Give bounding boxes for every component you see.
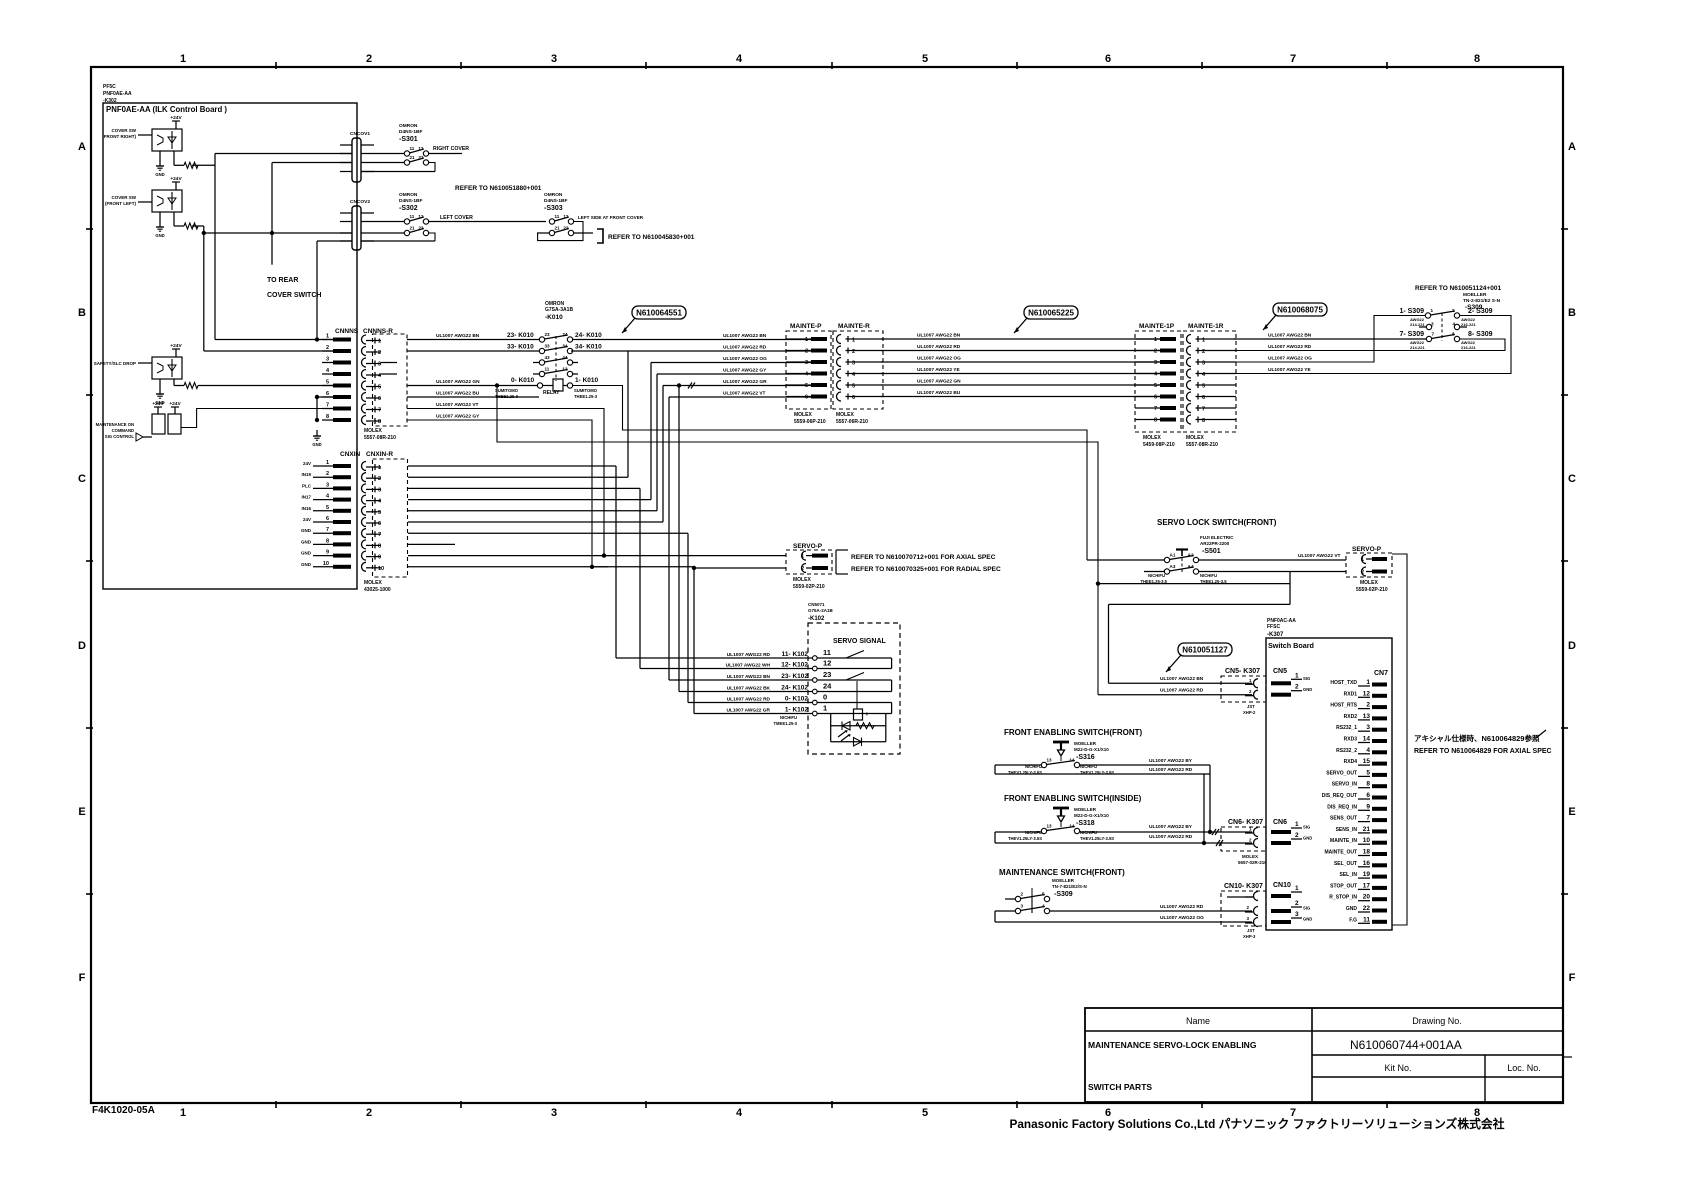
svg-text:5557-08R-210: 5557-08R-210 bbox=[1186, 442, 1218, 448]
svg-text:GND: GND bbox=[301, 562, 312, 567]
svg-text:UL1007 AWG22 BN: UL1007 AWG22 BN bbox=[723, 333, 767, 339]
svg-text:5: 5 bbox=[1202, 384, 1205, 390]
svg-text:DIS_REQ_IN: DIS_REQ_IN bbox=[1327, 804, 1357, 810]
svg-text:UL1007 AWG22 BN: UL1007 AWG22 BN bbox=[917, 333, 961, 339]
svg-text:MOELLER: MOELLER bbox=[1052, 878, 1075, 883]
svg-text:+24V: +24V bbox=[169, 401, 181, 407]
svg-text:15: 15 bbox=[1363, 758, 1371, 765]
svg-text:5: 5 bbox=[326, 505, 329, 511]
svg-text:TMEE1.25-3: TMEE1.25-3 bbox=[773, 721, 797, 726]
svg-text:12: 12 bbox=[418, 146, 424, 151]
svg-text:2: 2 bbox=[1361, 570, 1364, 576]
svg-text:-S501: -S501 bbox=[1202, 548, 1221, 555]
svg-text:5: 5 bbox=[378, 385, 381, 391]
svg-text:MAINTE-R: MAINTE-R bbox=[838, 323, 870, 330]
svg-text:GND: GND bbox=[1303, 917, 1312, 922]
svg-text:8: 8 bbox=[1202, 418, 1205, 424]
svg-text:CNCOV1: CNCOV1 bbox=[350, 131, 370, 137]
svg-text:1: 1 bbox=[1431, 308, 1434, 313]
svg-text:1: 1 bbox=[1202, 338, 1205, 344]
svg-text:1: 1 bbox=[1295, 885, 1299, 892]
svg-text:3: 3 bbox=[852, 361, 855, 367]
svg-text:43025-1000: 43025-1000 bbox=[364, 587, 391, 593]
svg-text:COVER SW: COVER SW bbox=[111, 195, 136, 200]
svg-text:-S301: -S301 bbox=[399, 136, 418, 143]
svg-text:RXD3: RXD3 bbox=[1344, 737, 1358, 743]
svg-text:UL1007 AWG22 BK: UL1007 AWG22 BK bbox=[727, 686, 771, 692]
svg-text:216-221: 216-221 bbox=[1461, 345, 1476, 350]
svg-text:5557-08R-210: 5557-08R-210 bbox=[364, 435, 396, 441]
svg-text:XHP-2: XHP-2 bbox=[1243, 710, 1256, 715]
svg-text:STOP_OUT: STOP_OUT bbox=[1330, 883, 1357, 889]
svg-text:UL1007 AWG22 VT: UL1007 AWG22 VT bbox=[723, 391, 766, 397]
svg-text:SENS_OUT: SENS_OUT bbox=[1330, 816, 1357, 822]
svg-text:3: 3 bbox=[326, 482, 329, 488]
svg-text:5557-02R-210: 5557-02R-210 bbox=[1238, 860, 1267, 865]
svg-text:MAINTENANCE ON: MAINTENANCE ON bbox=[96, 422, 134, 427]
svg-text:+24V: +24V bbox=[170, 115, 182, 121]
svg-text:3: 3 bbox=[551, 53, 557, 65]
svg-text:PNF0AE-AA (ILK Control Board ): PNF0AE-AA (ILK Control Board ) bbox=[106, 105, 227, 114]
svg-text:2: 2 bbox=[366, 53, 372, 65]
svg-text:THEE1.25-3: THEE1.25-3 bbox=[495, 394, 519, 399]
svg-text:MOLEX: MOLEX bbox=[793, 577, 811, 583]
svg-text:Drawing No.: Drawing No. bbox=[1412, 1016, 1462, 1026]
svg-text:2: 2 bbox=[1295, 684, 1299, 691]
svg-text:5: 5 bbox=[1366, 769, 1370, 776]
svg-text:NICHIFU: NICHIFU bbox=[1148, 573, 1165, 578]
svg-text:-S309: -S309 bbox=[1054, 891, 1073, 898]
svg-text:SERVO-P: SERVO-P bbox=[793, 543, 823, 550]
svg-text:24: 24 bbox=[562, 332, 568, 337]
svg-text:GND: GND bbox=[1303, 687, 1312, 692]
svg-text:COVER SW: COVER SW bbox=[111, 128, 136, 133]
svg-text:F4K1020-05A: F4K1020-05A bbox=[92, 1105, 155, 1116]
svg-text:LEFT COVER: LEFT COVER bbox=[440, 215, 473, 221]
svg-text:(FRONT RIGHT): (FRONT RIGHT) bbox=[102, 134, 136, 139]
svg-text:7: 7 bbox=[1366, 815, 1370, 822]
svg-text:11: 11 bbox=[823, 648, 831, 657]
svg-text:UL1007 AWG22 GY: UL1007 AWG22 GY bbox=[723, 368, 767, 374]
svg-text:2: 2 bbox=[805, 349, 808, 355]
svg-text:8: 8 bbox=[1474, 53, 1480, 65]
svg-text:1: 1 bbox=[378, 339, 381, 345]
svg-text:8: 8 bbox=[326, 414, 329, 420]
svg-text:GND: GND bbox=[312, 442, 321, 447]
svg-text:A: A bbox=[78, 141, 86, 153]
svg-text:0- K010: 0- K010 bbox=[511, 377, 535, 384]
svg-text:6: 6 bbox=[378, 521, 381, 527]
svg-text:2: 2 bbox=[801, 566, 804, 572]
svg-text:11: 11 bbox=[410, 146, 415, 151]
svg-text:UL1007 AWG22 RD: UL1007 AWG22 RD bbox=[1149, 767, 1193, 773]
svg-text:22: 22 bbox=[1363, 905, 1371, 912]
svg-text:18: 18 bbox=[1363, 849, 1371, 856]
svg-text:8: 8 bbox=[378, 419, 381, 425]
svg-text:7: 7 bbox=[1154, 406, 1157, 412]
svg-text:11- K102: 11- K102 bbox=[782, 651, 809, 658]
svg-text:CNNNS: CNNNS bbox=[335, 328, 359, 335]
svg-text:3: 3 bbox=[326, 357, 329, 363]
svg-text:TO REAR: TO REAR bbox=[267, 277, 298, 284]
svg-text:COMMAND: COMMAND bbox=[112, 428, 134, 433]
svg-text:2- S309: 2- S309 bbox=[1468, 308, 1493, 315]
svg-text:16: 16 bbox=[1363, 860, 1371, 867]
svg-text:1: 1 bbox=[852, 338, 855, 344]
svg-text:A1: A1 bbox=[1170, 553, 1176, 558]
svg-text:DIS_REQ_OUT: DIS_REQ_OUT bbox=[1322, 793, 1357, 799]
svg-text:CN10: CN10 bbox=[1273, 882, 1291, 889]
svg-text:RXD4: RXD4 bbox=[1344, 759, 1358, 765]
svg-text:NICHIFU: NICHIFU bbox=[780, 715, 797, 720]
svg-text:SERVO LOCK SWITCH(FRONT): SERVO LOCK SWITCH(FRONT) bbox=[1157, 518, 1277, 527]
svg-text:CNXIN-R: CNXIN-R bbox=[366, 451, 393, 458]
svg-text:MOLEX: MOLEX bbox=[794, 412, 812, 418]
svg-text:FRONT ENABLING SWITCH(INSIDE): FRONT ENABLING SWITCH(INSIDE) bbox=[1004, 794, 1142, 803]
svg-text:UL1007 AWG22 GR: UL1007 AWG22 GR bbox=[723, 379, 767, 385]
svg-text:UL1007 AWG22 VT: UL1007 AWG22 VT bbox=[1298, 553, 1341, 559]
svg-text:SEL_IN: SEL_IN bbox=[1339, 872, 1357, 878]
svg-text:MOLEX: MOLEX bbox=[1242, 854, 1258, 859]
svg-text:SUMITOMO: SUMITOMO bbox=[574, 388, 598, 393]
svg-text:RS232_1: RS232_1 bbox=[1336, 725, 1357, 731]
svg-text:+24V: +24V bbox=[170, 176, 182, 182]
svg-text:1: 1 bbox=[1366, 679, 1370, 686]
svg-text:4: 4 bbox=[1042, 904, 1045, 909]
svg-text:-S302: -S302 bbox=[399, 205, 418, 212]
svg-text:D4NS-1BF: D4NS-1BF bbox=[399, 198, 423, 204]
svg-text:5: 5 bbox=[1154, 383, 1157, 389]
svg-text:REFER TO N610051124+001: REFER TO N610051124+001 bbox=[1415, 285, 1501, 292]
svg-text:21: 21 bbox=[1363, 826, 1371, 833]
svg-text:UL1007 AWG22 RD: UL1007 AWG22 RD bbox=[917, 344, 961, 350]
svg-text:JST: JST bbox=[1247, 704, 1255, 709]
svg-text:21: 21 bbox=[410, 155, 416, 160]
svg-text:R_STOP_IN: R_STOP_IN bbox=[1329, 895, 1357, 901]
svg-text:14: 14 bbox=[1363, 736, 1371, 743]
svg-text:4: 4 bbox=[736, 1107, 743, 1119]
svg-text:G7SA-3A1B: G7SA-3A1B bbox=[545, 307, 573, 313]
svg-text:THEV1.25LY-3.5S: THEV1.25LY-3.5S bbox=[1008, 836, 1042, 841]
svg-text:UL1007 AWG22 YE: UL1007 AWG22 YE bbox=[1268, 367, 1311, 373]
svg-text:UL1007 AWG22 BN: UL1007 AWG22 BN bbox=[727, 674, 771, 680]
svg-text:SIG: SIG bbox=[1303, 825, 1310, 830]
svg-text:12: 12 bbox=[418, 214, 424, 219]
svg-text:1- K102: 1- K102 bbox=[785, 707, 809, 714]
svg-text:UL1007 AWG22 GY: UL1007 AWG22 GY bbox=[436, 414, 480, 420]
svg-text:CN5- K307: CN5- K307 bbox=[1225, 668, 1260, 675]
svg-text:7: 7 bbox=[378, 408, 381, 414]
svg-text:43: 43 bbox=[545, 355, 551, 360]
svg-text:5: 5 bbox=[378, 510, 381, 516]
svg-text:CNXIN: CNXIN bbox=[340, 451, 361, 458]
svg-text:6: 6 bbox=[1105, 53, 1111, 65]
svg-text:UL1007 AWG22 GN: UL1007 AWG22 GN bbox=[436, 379, 480, 385]
svg-text:3: 3 bbox=[1154, 360, 1157, 366]
svg-text:13: 13 bbox=[1363, 713, 1371, 720]
svg-text:5557-06R-210: 5557-06R-210 bbox=[836, 419, 868, 425]
svg-text:UL1007 AWG22 BY: UL1007 AWG22 BY bbox=[1149, 758, 1193, 764]
svg-text:2: 2 bbox=[1295, 832, 1299, 839]
svg-text:1: 1 bbox=[378, 465, 381, 471]
svg-text:12: 12 bbox=[1363, 690, 1371, 697]
svg-text:MAINTE-1P: MAINTE-1P bbox=[1139, 323, 1175, 330]
svg-text:UL1007 AWG22 BU: UL1007 AWG22 BU bbox=[436, 391, 480, 397]
svg-text:UL1007 AWG22 OG: UL1007 AWG22 OG bbox=[1160, 915, 1204, 921]
svg-text:2: 2 bbox=[378, 476, 381, 482]
svg-text:4: 4 bbox=[1452, 322, 1455, 327]
svg-text:5: 5 bbox=[1042, 892, 1045, 897]
svg-text:SENS_IN: SENS_IN bbox=[1336, 827, 1358, 833]
svg-text:RIGHT COVER: RIGHT COVER bbox=[433, 146, 469, 152]
svg-text:-K307: -K307 bbox=[1267, 632, 1284, 638]
svg-text:IN17: IN17 bbox=[301, 495, 311, 500]
svg-text:-K010: -K010 bbox=[545, 314, 563, 321]
svg-text:SAFETY/SLC DROP: SAFETY/SLC DROP bbox=[94, 361, 136, 366]
svg-text:SIG: SIG bbox=[1303, 676, 1310, 681]
svg-text:5: 5 bbox=[852, 384, 855, 390]
svg-text:8: 8 bbox=[326, 538, 329, 544]
svg-text:A: A bbox=[1568, 141, 1576, 153]
svg-text:GND: GND bbox=[1346, 906, 1358, 912]
svg-text:2: 2 bbox=[1154, 349, 1157, 355]
svg-text:CNCOV2: CNCOV2 bbox=[350, 199, 370, 205]
svg-text:24V: 24V bbox=[303, 461, 311, 466]
svg-text:MOLEX: MOLEX bbox=[1143, 435, 1161, 441]
svg-text:UL1007 AWG22 OG: UL1007 AWG22 OG bbox=[723, 356, 767, 362]
svg-text:3: 3 bbox=[1202, 361, 1205, 367]
svg-text:UL1007 AWG22 RD: UL1007 AWG22 RD bbox=[1268, 344, 1312, 350]
svg-text:8: 8 bbox=[1154, 418, 1157, 424]
svg-text:-K302: -K302 bbox=[103, 98, 117, 104]
svg-text:2: 2 bbox=[326, 471, 329, 477]
svg-text:UL1007 AWG22 OG: UL1007 AWG22 OG bbox=[1268, 356, 1312, 362]
svg-text:6: 6 bbox=[1154, 395, 1157, 401]
svg-text:12- K102: 12- K102 bbox=[781, 662, 808, 669]
svg-text:5559-02P-210: 5559-02P-210 bbox=[793, 584, 825, 590]
svg-text:SEL_OUT: SEL_OUT bbox=[1334, 861, 1357, 867]
svg-text:SERVO_IN: SERVO_IN bbox=[1332, 782, 1358, 788]
svg-text:2: 2 bbox=[1452, 308, 1455, 313]
svg-text:THEV1.25LY-3.5S: THEV1.25LY-3.5S bbox=[1080, 836, 1114, 841]
svg-text:REFER TO N610051880+001: REFER TO N610051880+001 bbox=[455, 185, 542, 192]
svg-text:UL1007 AWG22 RD: UL1007 AWG22 RD bbox=[1160, 904, 1204, 910]
svg-text:20: 20 bbox=[1363, 894, 1371, 901]
svg-text:1: 1 bbox=[823, 704, 827, 713]
svg-text:RS232_2: RS232_2 bbox=[1336, 748, 1357, 754]
svg-text:TN-7-821/E2/S-N: TN-7-821/E2/S-N bbox=[1052, 884, 1087, 889]
svg-text:E: E bbox=[78, 806, 85, 818]
svg-text:NICHIFU: NICHIFU bbox=[1200, 573, 1217, 578]
svg-text:2: 2 bbox=[1366, 702, 1370, 709]
svg-text:Loc. No.: Loc. No. bbox=[1507, 1063, 1541, 1073]
svg-text:7: 7 bbox=[1432, 332, 1435, 337]
svg-text:CN6- K307: CN6- K307 bbox=[1228, 819, 1263, 826]
svg-text:Name: Name bbox=[1186, 1016, 1210, 1026]
svg-text:SIG CONTROL: SIG CONTROL bbox=[105, 434, 135, 439]
svg-text:MOLEX: MOLEX bbox=[1186, 435, 1204, 441]
svg-text:UL1007 AWG22 YE: UL1007 AWG22 YE bbox=[917, 367, 960, 373]
svg-text:HOST_RTS: HOST_RTS bbox=[1330, 703, 1357, 709]
svg-text:3: 3 bbox=[805, 360, 808, 366]
svg-text:F: F bbox=[1569, 972, 1576, 984]
svg-text:1: 1 bbox=[180, 1107, 186, 1119]
svg-text:OMRON: OMRON bbox=[399, 192, 418, 198]
svg-text:-S318: -S318 bbox=[1076, 820, 1095, 827]
svg-text:UL1007 AWG22 BN: UL1007 AWG22 BN bbox=[1160, 676, 1204, 682]
svg-text:14: 14 bbox=[1069, 758, 1075, 763]
svg-text:M22-D-G-X1/X10: M22-D-G-X1/X10 bbox=[1074, 813, 1109, 818]
svg-text:SERVO_OUT: SERVO_OUT bbox=[1326, 770, 1357, 776]
svg-text:7: 7 bbox=[378, 532, 381, 538]
svg-text:REFER TO N610070712+001 FOR AX: REFER TO N610070712+001 FOR AXIAL SPEC bbox=[851, 554, 996, 561]
svg-text:UL1007 AWG22 GN: UL1007 AWG22 GN bbox=[917, 379, 961, 385]
svg-text:IN19: IN19 bbox=[301, 472, 311, 477]
svg-text:JST: JST bbox=[1247, 928, 1255, 933]
svg-text:FUJI ELECTRIC: FUJI ELECTRIC bbox=[1200, 535, 1234, 540]
svg-text:MOLEX: MOLEX bbox=[1360, 580, 1378, 586]
svg-text:1: 1 bbox=[326, 334, 329, 340]
svg-text:1: 1 bbox=[1154, 337, 1157, 343]
svg-text:MOLEX: MOLEX bbox=[364, 580, 382, 586]
svg-text:SIG: SIG bbox=[1303, 906, 1310, 911]
svg-text:22: 22 bbox=[563, 226, 569, 231]
svg-text:3: 3 bbox=[1431, 322, 1434, 327]
svg-text:23- K102: 23- K102 bbox=[781, 673, 808, 680]
svg-text:0- K102: 0- K102 bbox=[785, 696, 809, 703]
svg-text:23: 23 bbox=[545, 332, 551, 337]
svg-text:D4NS-1BF: D4NS-1BF bbox=[544, 198, 568, 204]
svg-text:2: 2 bbox=[378, 350, 381, 356]
svg-text:22: 22 bbox=[418, 155, 424, 160]
svg-text:OMRON: OMRON bbox=[544, 192, 563, 198]
svg-text:6: 6 bbox=[326, 516, 329, 522]
svg-text:AR22PR-2200: AR22PR-2200 bbox=[1200, 541, 1230, 546]
svg-text:SERVO SIGNAL: SERVO SIGNAL bbox=[833, 638, 886, 645]
svg-text:A2: A2 bbox=[1188, 553, 1194, 558]
svg-text:SUMITOMO: SUMITOMO bbox=[495, 388, 519, 393]
svg-text:11: 11 bbox=[1363, 916, 1370, 923]
svg-text:MAINTE-P: MAINTE-P bbox=[790, 323, 822, 330]
svg-text:11: 11 bbox=[555, 214, 560, 219]
svg-text:RXD1: RXD1 bbox=[1344, 691, 1358, 697]
svg-text:1: 1 bbox=[1295, 821, 1299, 828]
svg-text:G75A-2A1B: G75A-2A1B bbox=[808, 608, 834, 613]
svg-text:21: 21 bbox=[555, 226, 561, 231]
svg-text:D4NS-1BF: D4NS-1BF bbox=[399, 129, 423, 135]
svg-text:UL1007 AWG22 RD: UL1007 AWG22 RD bbox=[1160, 688, 1204, 694]
svg-text:19: 19 bbox=[1363, 871, 1371, 878]
svg-text:CN7: CN7 bbox=[1374, 670, 1388, 677]
svg-text:1: 1 bbox=[180, 53, 186, 65]
svg-text:F.G: F.G bbox=[1349, 917, 1357, 923]
svg-text:CN5071: CN5071 bbox=[808, 602, 825, 607]
svg-text:B: B bbox=[78, 307, 86, 319]
svg-text:5559-02P-210: 5559-02P-210 bbox=[1356, 587, 1388, 593]
svg-text:FFSC: FFSC bbox=[1267, 624, 1280, 630]
svg-text:10: 10 bbox=[1363, 837, 1371, 844]
svg-text:OMRON: OMRON bbox=[399, 123, 418, 129]
svg-text:(FRONT LEFT): (FRONT LEFT) bbox=[105, 201, 136, 206]
svg-text:5: 5 bbox=[326, 380, 329, 386]
svg-text:UL1007 AWG22 BU: UL1007 AWG22 BU bbox=[917, 390, 961, 396]
svg-text:RXD2: RXD2 bbox=[1344, 714, 1358, 720]
svg-text:2: 2 bbox=[1202, 349, 1205, 355]
svg-text:UL1007 AWG22 RD: UL1007 AWG22 RD bbox=[1149, 834, 1193, 840]
svg-text:D: D bbox=[1568, 640, 1576, 652]
svg-text:-S316: -S316 bbox=[1076, 754, 1095, 761]
svg-text:12: 12 bbox=[563, 214, 569, 219]
svg-text:UL1007 AWG22 RD: UL1007 AWG22 RD bbox=[727, 652, 771, 658]
svg-text:216-221: 216-221 bbox=[1461, 322, 1476, 327]
svg-text:34: 34 bbox=[562, 344, 568, 349]
svg-text:LEFT SIDE AT FRONT COVER: LEFT SIDE AT FRONT COVER bbox=[578, 215, 644, 220]
svg-text:3: 3 bbox=[1295, 911, 1299, 918]
svg-text:B: B bbox=[1568, 307, 1576, 319]
svg-text:1: 1 bbox=[805, 337, 808, 343]
svg-text:MOLEX: MOLEX bbox=[364, 428, 382, 434]
svg-text:E: E bbox=[1568, 806, 1575, 818]
svg-text:FRONT ENABLING SWITCH(FRONT): FRONT ENABLING SWITCH(FRONT) bbox=[1004, 728, 1143, 737]
svg-text:10: 10 bbox=[323, 561, 329, 567]
svg-text:17: 17 bbox=[1363, 882, 1371, 889]
svg-text:Panasonic Factory Solutions Co: Panasonic Factory Solutions Co.,Ltd パナソニ… bbox=[1009, 1117, 1504, 1131]
svg-text:9: 9 bbox=[378, 555, 381, 561]
svg-text:REFER TO N610045830+001: REFER TO N610045830+001 bbox=[608, 234, 695, 241]
svg-text:2: 2 bbox=[852, 349, 855, 355]
svg-text:MAINTENANCE SERVO-LOCK ENABLIN: MAINTENANCE SERVO-LOCK ENABLING bbox=[1088, 1040, 1257, 1050]
svg-text:6: 6 bbox=[805, 395, 808, 401]
svg-text:UL1007 AWG22 OG: UL1007 AWG22 OG bbox=[917, 356, 961, 362]
svg-text:GND: GND bbox=[301, 539, 312, 544]
svg-text:7: 7 bbox=[1202, 407, 1205, 413]
svg-text:Kit No.: Kit No. bbox=[1384, 1063, 1411, 1073]
svg-text:14: 14 bbox=[1069, 824, 1075, 829]
svg-text:N610065225: N610065225 bbox=[1028, 309, 1074, 318]
svg-text:MAINTE_OUT: MAINTE_OUT bbox=[1325, 850, 1358, 856]
svg-text:MAINTENANCE SWITCH(FRONT): MAINTENANCE SWITCH(FRONT) bbox=[999, 868, 1125, 877]
svg-text:9: 9 bbox=[1366, 803, 1370, 810]
svg-text:3: 3 bbox=[1021, 904, 1024, 909]
svg-text:PF5C: PF5C bbox=[103, 84, 116, 90]
svg-text:MOELLER: MOELLER bbox=[1074, 741, 1097, 746]
svg-text:PNF0AE-AA: PNF0AE-AA bbox=[103, 91, 132, 97]
svg-text:THEE1.25-3: THEE1.25-3 bbox=[574, 394, 598, 399]
svg-text:1: 1 bbox=[1361, 557, 1364, 563]
svg-text:11: 11 bbox=[410, 214, 415, 219]
svg-text:MAINTE_IN: MAINTE_IN bbox=[1330, 838, 1357, 844]
svg-text:UL1007 AWG22 GR: UL1007 AWG22 GR bbox=[726, 708, 770, 714]
svg-text:GND: GND bbox=[301, 551, 312, 556]
svg-text:3: 3 bbox=[378, 362, 381, 368]
svg-text:アキシャル仕様時、N610064829参照: アキシャル仕様時、N610064829参照 bbox=[1414, 733, 1540, 743]
svg-text:214-221: 214-221 bbox=[1410, 322, 1425, 327]
svg-text:2: 2 bbox=[1021, 892, 1024, 897]
svg-text:1- S309: 1- S309 bbox=[1399, 308, 1424, 315]
svg-text:IN16: IN16 bbox=[301, 506, 311, 511]
svg-text:REFER TO N610070325+001 FOR RA: REFER TO N610070325+001 FOR RADIAL SPEC bbox=[851, 566, 1001, 573]
svg-text:A4: A4 bbox=[1188, 564, 1194, 569]
svg-text:N610060744+001AA: N610060744+001AA bbox=[1350, 1038, 1462, 1052]
svg-text:3: 3 bbox=[551, 1107, 557, 1119]
svg-text:COVER SWITCH: COVER SWITCH bbox=[267, 292, 321, 299]
svg-text:1: 1 bbox=[326, 460, 329, 466]
svg-text:GND: GND bbox=[155, 172, 164, 177]
svg-text:Switch Board: Switch Board bbox=[1268, 641, 1314, 650]
svg-text:N610068075: N610068075 bbox=[1277, 306, 1323, 315]
svg-text:44: 44 bbox=[562, 355, 568, 360]
svg-text:5: 5 bbox=[922, 1107, 928, 1119]
